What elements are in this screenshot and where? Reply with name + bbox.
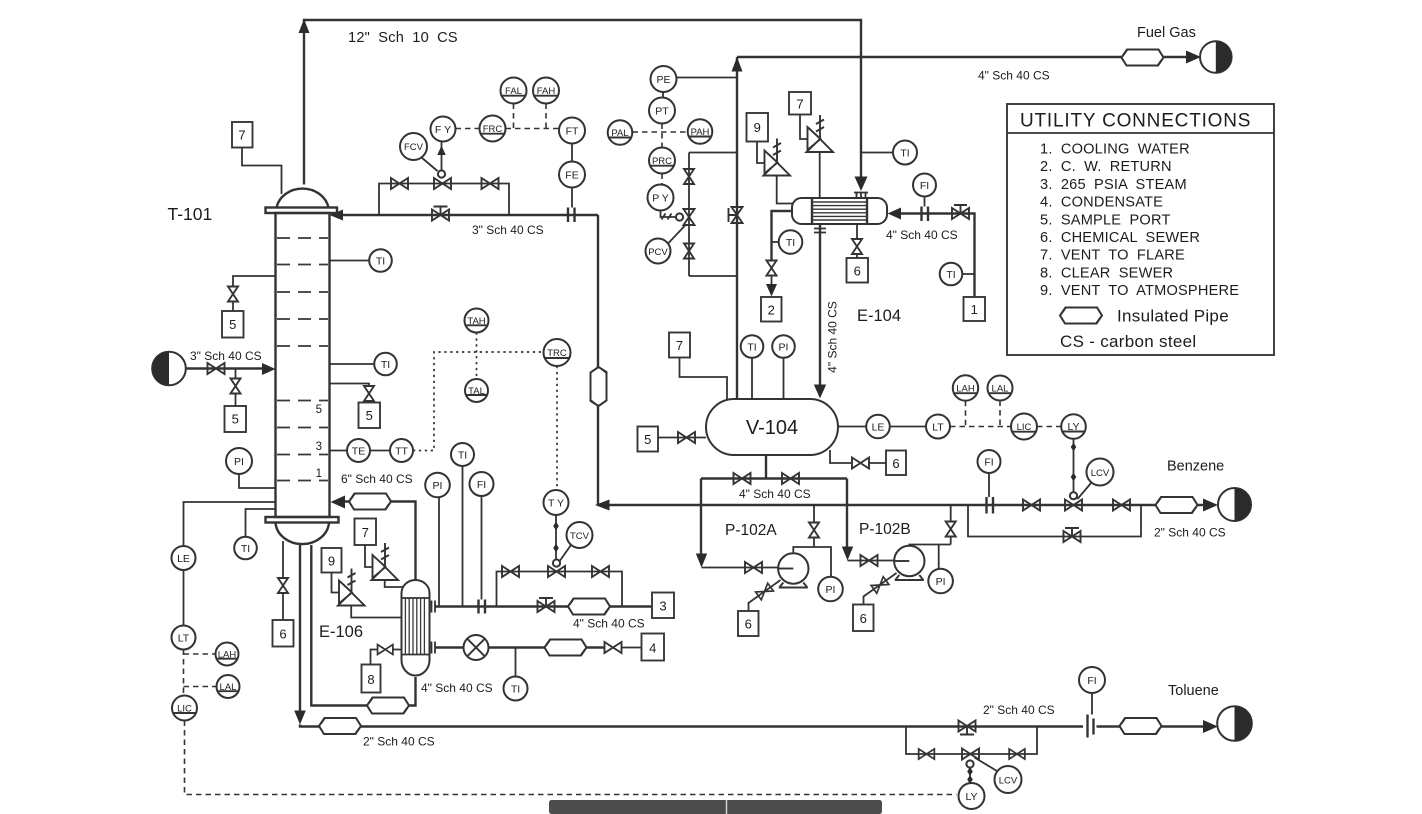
LT circle (column) [172,626,196,650]
svg-text:P-102B: P-102B [859,521,911,538]
P-102B suction valve [861,555,878,566]
svg-text:TAH: TAH [467,316,485,327]
utility box 3 [652,593,674,619]
vent box 7 (E-104) [789,92,811,115]
FY circle [431,117,456,142]
signal diamond 1 (TY) [553,522,559,531]
arrow to benzene terminator [1203,499,1218,512]
insulated pipe symbol on riser [591,367,607,406]
svg-text:4" Sch 40 CS: 4" Sch 40 CS [978,69,1050,83]
TI circle (V-104) [741,335,764,358]
svg-text:7: 7 [676,338,683,353]
signal dashed LIC to LY [1037,426,1062,428]
relief valve PSV-9 (E-104) [764,139,791,176]
signal dashed TT to TRC [413,352,543,451]
arrow to toluene terminator [1203,720,1218,733]
legend box UTILITY CONNECTIONS [1007,104,1274,355]
arrow up on vent riser [732,57,743,72]
svg-text:PI: PI [826,584,836,596]
signal FY to valve with arrow [441,142,443,170]
PSV-7 inlet wire (E-106) [385,580,404,587]
signal dashed LIC to toluene LY [185,721,957,795]
svg-text:Insulated Pipe: Insulated Pipe [1117,307,1229,326]
svg-text:1: 1 [971,302,978,317]
svg-text:7. VENT TO FLARE: 7. VENT TO FLARE [1040,248,1185,264]
condensate valve [605,642,622,653]
svg-text:LCV: LCV [999,775,1018,786]
svg-text:2" Sch 40 CS: 2" Sch 40 CS [983,703,1055,717]
utility box 4 [642,634,665,661]
svg-text:TI: TI [241,543,250,555]
wire box 7 to relief valve [800,115,808,140]
FE circle [559,162,585,188]
sample valve (V-104) [678,432,695,443]
svg-text:LAL: LAL [220,682,237,693]
dark bar at bottom [549,800,882,814]
LAL circle (V-104) [988,376,1013,401]
wire LCV to valve (toluene) [975,758,998,772]
PCV control valve body [684,209,695,225]
svg-text:7: 7 [238,128,245,143]
PCV circle [646,239,671,264]
reboiler E-106 shell [402,580,430,675]
E-104 condensate nozzle flanges [814,229,826,233]
svg-text:TI: TI [381,359,390,371]
signal dashed PT to PRC [661,124,663,148]
E-104 to V-104 line [819,224,821,387]
vent box 9 (E-106) [322,548,342,573]
E-104 condenser shell [792,198,887,224]
signal dashed PRC to PY [661,174,663,185]
P-102A drain wire [749,580,781,611]
PI circle (column bottom) [226,448,252,474]
column drain wire [282,541,284,578]
P-102B drain valve [871,577,889,594]
TY circle [544,490,569,515]
LY circle (toluene) [959,783,985,809]
steam line to E-106 [436,605,653,607]
PY circle [648,185,674,211]
svg-text:TCV: TCV [570,531,590,542]
LCV circle (benzene) [1087,459,1114,486]
TCV bypass loop [497,572,623,607]
svg-text:3. 265 PSIA STEAM: 3. 265 PSIA STEAM [1040,177,1187,193]
P-102A discharge valve [809,523,819,538]
toluene station main line [906,725,1083,727]
pump suction manifold [701,477,847,479]
signal dashed LT to LIC [950,426,1011,428]
svg-text:4" Sch 40 CS: 4" Sch 40 CS [421,681,493,695]
insulated pipe (bottoms) [319,718,361,734]
sample box 5 (upper) [222,311,244,338]
E-104 top nozzle flange [854,193,868,199]
svg-text:T-101: T-101 [168,204,213,224]
svg-text:4" Sch 40 CS: 4" Sch 40 CS [886,228,958,242]
svg-text:PI: PI [234,456,244,468]
orifice flanges (steam) [479,600,486,614]
PT circle [649,98,675,124]
reflux bypass loop [379,184,509,216]
utility box 1 [964,297,986,321]
signal dashed PAL-PAH [633,131,688,133]
V-104 bottom outlet [765,455,767,479]
svg-text:LE: LE [177,553,190,565]
control valve FCV body [434,170,451,189]
arrow down on bottoms line [294,711,306,725]
svg-text:E-106: E-106 [319,623,363,641]
relief valve PSV-7 (E-106) [372,543,399,580]
svg-text:TT: TT [395,445,408,457]
drain valve (V-104) [852,458,869,469]
manifold valve left [734,473,751,484]
PE circle [651,66,677,92]
TI circle (steam) [451,443,474,466]
svg-text:FT: FT [566,125,579,137]
wire LCV to valve [1078,483,1092,500]
P-102A discharge wire [793,505,831,577]
arrow into column (reflux) [330,210,344,221]
svg-text:FI: FI [920,180,929,192]
LE circle (V-104) [866,415,890,439]
svg-text:12" Sch 10 CS: 12" Sch 10 CS [348,30,458,46]
control valve LCV body (toluene) [962,749,979,760]
toluene bypass valve right [1009,749,1025,759]
E-106 vapor return riser [345,502,416,580]
insulated pipe (steam) [568,599,610,615]
TAL circle [465,379,488,402]
FI circle (benzene) [978,450,1001,473]
arrow down (B suction) [842,547,853,561]
sample box 5 (right) [359,403,381,429]
P-102A suction line [702,567,779,569]
PSV-9 inlet wire (E-106) [351,606,401,618]
svg-text:PI: PI [433,480,443,492]
FI circle (toluene) [1079,667,1105,693]
wire TI to return line [772,241,779,243]
signal dashed FAH stem [545,104,547,129]
bypass gate valve left [391,178,408,189]
P-102A drain valve [756,583,774,600]
benzene terminator [1218,488,1251,521]
utility box 6 (V-104) [886,451,906,476]
column drain valve [278,578,288,593]
upper valve on PCV branch [684,169,694,184]
svg-text:FCV: FCV [404,142,424,153]
feed stream terminator [152,352,186,386]
svg-text:3: 3 [659,599,666,614]
V-104 drain wire [830,450,853,463]
orifice flanges on reflux line [568,208,575,223]
PI stem (steam) [438,497,440,607]
svg-text:9: 9 [328,554,335,569]
PRC circle [649,148,675,174]
LAH circle (column) [216,643,239,666]
svg-text:9: 9 [754,120,761,135]
PI wire to column [239,474,276,488]
svg-text:2. C. W. RETURN: 2. C. W. RETURN [1040,159,1172,175]
svg-text:PE: PE [656,74,670,86]
wire to box 6 [856,254,858,258]
arrow into E-104 right end [888,208,902,220]
toluene globe valve (stem down) [959,721,976,735]
pump P-102B [894,546,924,580]
toluene bypass valve left [919,749,935,759]
arrow into column (vapor return) [331,496,346,509]
LIC circle (V-104) [1011,414,1037,440]
LAL circle (column) [217,675,240,698]
toluene bottoms line [300,725,906,727]
arrow left on header [595,500,610,511]
svg-text:4" Sch 40 CS: 4" Sch 40 CS [573,617,645,631]
signal diamond 2 (toluene) [967,775,973,784]
signal dashed LAL stem [999,401,1001,427]
insulated pipe on fuel gas line [1122,50,1164,66]
svg-text:7: 7 [796,97,803,112]
condensate line from E-106 [436,646,464,648]
FI stem (benzene) [988,473,990,497]
wire box 9 to relief valve [757,142,765,164]
svg-text:TI: TI [900,147,909,159]
arrow to fuel gas terminator [1186,51,1201,64]
wire PE to PT [662,92,664,98]
signal dashed TRC down to TY [556,366,558,490]
svg-text:TI: TI [946,269,955,281]
steam trap [464,635,489,660]
benzene product line [1141,504,1203,506]
TI circle (CW return) [779,230,803,254]
T-101 trays (dashed) [277,238,328,481]
bypass gate valve right [482,178,499,189]
svg-text:P Y: P Y [652,192,669,204]
pump discharge header (benzene line) [598,504,1141,506]
TI wire to column [246,509,276,537]
wire TCV to valve [559,545,571,562]
PCV valve stem circle [676,213,683,220]
PI circle (steam) [425,473,450,498]
TRC circle [544,339,571,366]
steam bypass globe valve [538,598,555,612]
wire FI to orifice [924,197,926,207]
svg-text:7: 7 [362,525,369,540]
svg-text:LCV: LCV [1091,468,1110,479]
svg-text:TI: TI [458,449,467,461]
feed line 3in [186,367,264,369]
TI upper wire [330,260,370,262]
svg-text:4. CONDENSATE: 4. CONDENSATE [1040,195,1163,211]
TI mid wire [330,363,375,365]
svg-text:PRC: PRC [652,156,672,167]
svg-text:FI: FI [1087,675,1096,687]
wire LE to vessel [838,426,867,428]
PCV branch top connection [689,152,737,154]
svg-text:1. COOLING WATER: 1. COOLING WATER [1040,142,1190,158]
svg-text:5: 5 [229,317,236,332]
signal LY to LCV valve [1073,439,1075,492]
signal dashed LAH stem [965,401,967,427]
svg-text:TI: TI [786,237,795,249]
svg-text:P-102A: P-102A [725,522,777,539]
svg-text:6: 6 [745,617,752,632]
P-102B discharge wire [909,505,950,569]
LIC circle (column) [172,696,197,721]
PAH circle [688,119,713,144]
svg-text:V-104: V-104 [746,417,798,439]
svg-text:PI: PI [936,576,946,588]
vent box 7 (E-106) [355,519,377,546]
TI stem (condensate) [515,648,517,677]
lower valve on PCV branch [684,244,694,259]
block valve on vent riser [729,207,743,223]
benzene block valve left [1023,500,1040,511]
drain valve (E-104) [852,239,862,254]
FI stem (toluene) [1091,693,1093,715]
LCV valve stem circle (toluene) [966,760,973,767]
TCV bypass valve left [502,566,519,577]
wire LE to LT [890,426,926,428]
signal dashed FAL stem [513,104,515,129]
arrow into E-104 top [855,177,868,192]
wire TE to TT [370,450,390,452]
PI stem (V-104) [783,358,785,400]
signal TY to TCV valve [555,515,557,560]
toluene terminator [1217,706,1252,741]
wire box 7 to vessel [680,358,728,400]
arrow into V-104 top [814,385,826,399]
manifold valve right [782,473,799,484]
valve to box 8 [378,645,393,655]
svg-text:FI: FI [477,479,486,491]
svg-text:4" Sch 40 CS: 4" Sch 40 CS [739,487,811,501]
wire to box 6 (V-104) [869,462,887,464]
TI circle (E-104 vapor) [893,141,917,165]
utility box 6 (P-102A) [738,611,759,636]
FAH circle [533,78,559,104]
bottoms product line down [299,545,301,713]
svg-text:2" Sch 40 CS: 2" Sch 40 CS [363,735,435,749]
svg-text:9. VENT TO ATMOSPHERE: 9. VENT TO ATMOSPHERE [1040,283,1239,299]
wire TI to vapor line [861,152,893,154]
benzene bypass loop [968,505,1141,537]
column T-101 shell [266,189,339,545]
utility box 8 [362,665,381,693]
E-104 CW return line [772,211,793,260]
feed gate valve [208,363,225,374]
TI stem (steam) [462,466,464,607]
svg-text:LAL: LAL [992,384,1009,395]
wire FT to FE [571,144,573,162]
svg-text:UTILITY CONNECTIONS: UTILITY CONNECTIONS [1020,111,1251,132]
TE wire [330,450,348,452]
svg-text:LAH: LAH [956,384,975,395]
wire from box 7 to column dome [242,148,282,195]
toluene bypass loop [906,727,1037,755]
orifice flanges (benzene) [987,497,994,514]
svg-text:FI: FI [984,456,993,468]
svg-text:6: 6 [854,264,861,279]
svg-text:TI: TI [747,341,756,353]
FI circle (cooling water) [913,174,936,197]
insulated pipe (toluene) [1120,718,1162,734]
LY circle (benzene) [1061,414,1086,439]
svg-text:1: 1 [316,468,322,480]
E-104 bottom drain wire [856,224,858,239]
wire LE to LT [183,570,185,626]
svg-text:6: 6 [279,627,286,642]
signal dashed TAH-TAL [476,333,478,380]
svg-text:6" Sch 40 CS: 6" Sch 40 CS [341,472,413,486]
wire FCV to valve [422,158,438,172]
insulated pipe (vapor return) [349,494,391,510]
svg-text:5: 5 [232,412,239,427]
svg-text:4: 4 [649,641,656,656]
PI circle (P-102B) [928,569,953,594]
fuel gas terminator [1200,41,1232,73]
wire PY to PCV valve stem [661,211,677,220]
TCV valve stem circle [553,559,560,566]
P-102B suction line [848,560,895,562]
signal diamond 1 (toluene) [967,767,973,776]
svg-text:FRC: FRC [483,124,503,135]
orifice flanges on CW line [922,207,929,222]
FRC circle [480,116,506,142]
pump P-102A [778,553,808,587]
wire to box 4 [621,647,642,649]
svg-text:F Y: F Y [435,124,451,136]
insulated pipe (benzene) [1156,497,1198,513]
PI circle (V-104) [772,335,795,358]
signal dashed to LAH [184,653,216,655]
utility box 6 (E-104) [847,258,869,283]
TI circle (column bottom) [234,537,257,560]
svg-text:LIC: LIC [177,704,192,715]
reboiler feed line [311,545,415,706]
svg-text:5: 5 [316,404,322,416]
feed sample branch wire [235,369,237,379]
utility box 6 (column) [273,620,294,647]
P-102B suction leg [846,479,848,549]
wire to box 2 with arrow [771,276,773,286]
upper sample valve [228,287,238,302]
svg-text:3" Sch 40 CS: 3" Sch 40 CS [472,223,544,237]
svg-text:E-104: E-104 [857,307,901,325]
svg-text:CS - carbon steel: CS - carbon steel [1060,332,1196,351]
svg-text:LY: LY [1067,421,1079,433]
LCV valve stem circle [1070,492,1077,499]
legend insulated pipe symbol [1060,308,1102,324]
insulated pipe (reboiler feed) [367,698,409,714]
svg-text:LY: LY [965,791,977,803]
utility box 6 (P-102B) [853,605,874,632]
svg-text:LT: LT [178,632,190,644]
P-102B discharge valve [946,522,956,537]
overhead vapor line 12in [304,20,861,185]
globe valve on CW inlet [952,205,969,219]
toluene product line [1097,725,1204,727]
flow arrow up on overhead line [299,19,310,33]
svg-text:3: 3 [316,441,322,453]
vent box 7 (V-104) [669,333,690,358]
svg-text:5: 5 [644,432,651,447]
E-106 steam nozzle flanges [432,601,436,613]
LT circle (V-104) [926,415,950,439]
svg-text:5: 5 [366,408,373,423]
relief valve PSV-7 (E-104) [807,115,834,152]
svg-text:PAH: PAH [691,127,710,138]
FT circle [559,118,585,144]
svg-text:FE: FE [565,169,578,181]
svg-text:LIC: LIC [1017,422,1032,433]
svg-text:T Y: T Y [548,497,564,509]
